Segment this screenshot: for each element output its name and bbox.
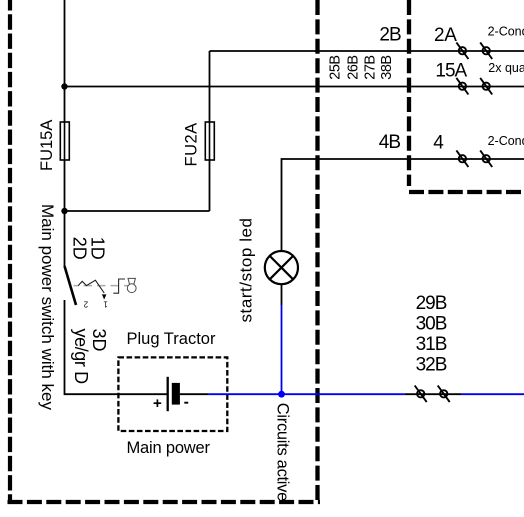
wire: horizontal 2A feed row y=51 [210, 50, 524, 52]
junction: bus / fuse link [61, 208, 67, 214]
svg-text:Plug Tractor: Plug Tractor [127, 330, 216, 348]
enclosure dashed border: left panel box left edge [8, 0, 12, 503]
battery G1: negative short thick plate [172, 383, 180, 405]
svg-text:Main power switch with key: Main power switch with key [38, 204, 57, 410]
enclosure dashed border: left panel box bottom edge [8, 500, 321, 504]
svg-text:Main power: Main power [127, 439, 211, 457]
switch mechanism linkage: gray dashed line [74, 285, 136, 287]
svg-text:start/stop led: start/stop led [237, 217, 256, 322]
junction: bus / 15A row [61, 83, 67, 89]
wire: main vertical bus from top into switch [64, 0, 66, 266]
svg-text:Circuits active: Circuits active [274, 403, 292, 501]
switch mechanism zigzag [78, 280, 104, 293]
svg-text:31B: 31B [416, 334, 447, 355]
battery polarity label - [184, 402, 188, 404]
svg-text:1D2D: 1D2D [69, 237, 107, 260]
enclosure dashed border: left panel box right edge [315, 0, 319, 500]
wire: below switch to battery corner [65, 300, 167, 394]
svg-text:FU15A: FU15A [38, 120, 56, 171]
svg-text:15A: 15A [435, 61, 467, 82]
lamp start/stop led [265, 251, 298, 284]
svg-text:25B: 25B [328, 55, 344, 79]
connector pins row circuits-active [415, 386, 450, 403]
svg-text:2x quad: 2x quad [488, 61, 524, 75]
wire: lamp to circuits-active net blue [281, 305, 283, 394]
svg-text:2-Condu: 2-Condu [488, 134, 524, 148]
wire: horizontal 15A feed row y=86.5 [65, 86, 524, 88]
enclosure dashed border: top-right box bottom edge [409, 190, 524, 194]
wire: lamp bottom lead black [281, 284, 283, 305]
wire: circuits active blue net right segment [461, 393, 524, 395]
wire: 4B feed row y=159 [282, 159, 524, 251]
battery enclosure dashed box [118, 357, 227, 431]
enclosure dashed border: top-right box left edge [407, 0, 411, 186]
svg-text:2B: 2B [379, 24, 401, 45]
svg-text:1: 1 [103, 300, 108, 309]
wire: bottom link between fuse branches y=211 [65, 210, 210, 212]
fuse FU2A [205, 122, 214, 160]
svg-text:FU2A: FU2A [182, 122, 200, 166]
svg-text:29B: 29B [416, 293, 447, 314]
svg-text:38B: 38B [379, 55, 395, 79]
wire: circuits active blue net left segment [208, 393, 404, 395]
connector pins row 15A [456, 78, 492, 95]
fuse FU15A [60, 122, 69, 160]
switch mechanism bracket [113, 279, 125, 293]
svg-text:4: 4 [433, 133, 444, 154]
key symbol [127, 278, 136, 292]
wire: battery negative to blue net [180, 393, 209, 395]
svg-text:30B: 30B [416, 314, 447, 335]
connector pins row 4 [456, 150, 492, 167]
connector pins row 2A [456, 42, 492, 59]
junction: blue net [278, 391, 285, 398]
svg-text:26B: 26B [345, 55, 361, 79]
battery G1 Main power: positive long plate [167, 377, 169, 411]
wire: FU2A branch vertical [209, 51, 211, 211]
switch mechanism arrow to position 1 [102, 294, 107, 299]
wire: black segment through connectors [405, 393, 461, 395]
svg-text:2-Condu: 2-Condu [488, 24, 524, 38]
svg-text:2A: 2A [434, 25, 457, 46]
battery polarity label + [154, 399, 162, 407]
svg-text:2: 2 [83, 300, 88, 309]
svg-text:4B: 4B [379, 132, 401, 153]
svg-text:27B: 27B [362, 55, 378, 79]
svg-text:32B: 32B [416, 355, 447, 376]
switch S1 main power switch with key: blade [65, 266, 77, 305]
